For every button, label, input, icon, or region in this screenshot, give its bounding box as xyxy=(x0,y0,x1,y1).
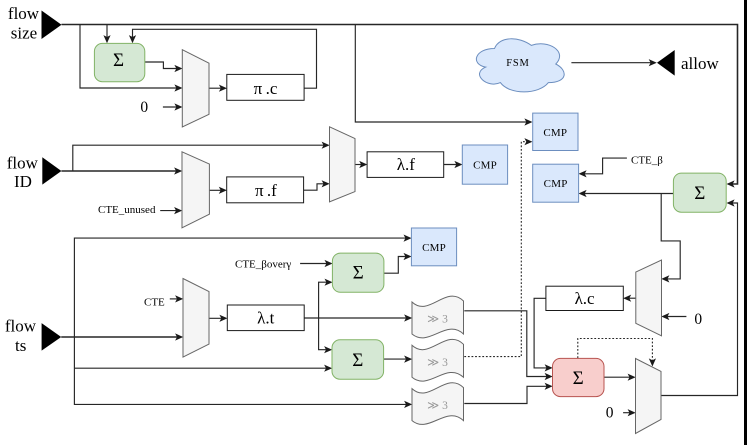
svg-text:CTE: CTE xyxy=(144,297,165,309)
svg-text:ts: ts xyxy=(15,336,26,355)
svg-text:CTE_β: CTE_β xyxy=(631,155,663,167)
svg-text:Σ: Σ xyxy=(694,183,705,204)
svg-text:Σ: Σ xyxy=(113,50,124,71)
svg-text:flow: flow xyxy=(8,4,40,23)
svg-text:0: 0 xyxy=(606,405,614,422)
svg-text:CMP: CMP xyxy=(544,178,568,190)
svg-text:CTE_unused: CTE_unused xyxy=(98,204,156,216)
svg-text:Σ: Σ xyxy=(352,350,363,371)
svg-text:flow: flow xyxy=(5,317,37,336)
svg-text:≫ 3: ≫ 3 xyxy=(427,400,448,412)
svg-text:≫ 3: ≫ 3 xyxy=(427,314,448,326)
svg-text:ID: ID xyxy=(14,172,32,191)
svg-text:0: 0 xyxy=(140,99,148,116)
svg-text:π .f: π .f xyxy=(255,181,277,200)
svg-text:≫ 3: ≫ 3 xyxy=(427,357,448,369)
svg-text:0: 0 xyxy=(694,311,702,328)
svg-text:π .c: π .c xyxy=(254,79,278,98)
svg-text:CTE_βoverγ: CTE_βoverγ xyxy=(235,259,291,271)
svg-text:CMP: CMP xyxy=(473,160,497,172)
svg-text:CMP: CMP xyxy=(422,242,446,254)
svg-text:flow: flow xyxy=(7,154,39,173)
svg-text:λ.c: λ.c xyxy=(575,289,595,308)
svg-text:Σ: Σ xyxy=(573,368,584,389)
svg-text:Σ: Σ xyxy=(353,263,364,284)
svg-text:λ.f: λ.f xyxy=(397,155,415,174)
svg-text:λ.t: λ.t xyxy=(257,309,274,328)
svg-text:CMP: CMP xyxy=(543,127,567,139)
svg-text:allow: allow xyxy=(681,54,719,73)
svg-text:size: size xyxy=(11,24,37,43)
svg-text:FSM: FSM xyxy=(506,58,529,69)
